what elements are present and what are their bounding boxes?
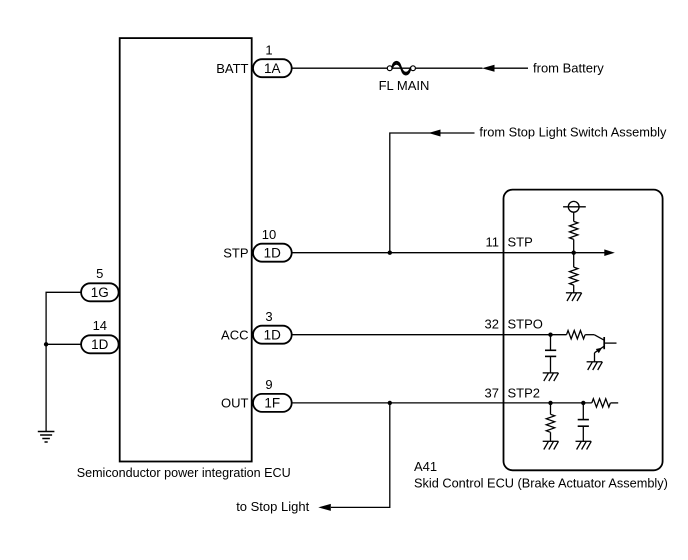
chassis ground (C2) xyxy=(576,441,592,449)
connector pin 1D (pin 14) xyxy=(81,335,119,353)
svg-text:BATT: BATT xyxy=(216,61,248,76)
svg-text:1: 1 xyxy=(265,42,272,57)
svg-text:STP2: STP2 xyxy=(508,386,541,401)
wire: from Stop Light Switch corner xyxy=(390,133,475,253)
svg-text:Skid Control ECU (Brake Actuat: Skid Control ECU (Brake Actuator Assembl… xyxy=(414,476,668,491)
svg-text:1D: 1D xyxy=(264,328,282,343)
svg-text:A41: A41 xyxy=(414,459,437,474)
connector pin 1A xyxy=(253,59,292,77)
arrowhead from Stop Light Switch Assembly xyxy=(429,130,441,137)
earth ground symbol xyxy=(38,432,55,443)
chassis ground (C1) xyxy=(543,373,559,381)
svg-text:STP: STP xyxy=(223,245,248,260)
chassis ground (STP divider) xyxy=(566,293,582,301)
junction: STP2 node 1 xyxy=(548,401,552,405)
wire: STP arrow xyxy=(574,252,605,254)
svg-text:1D: 1D xyxy=(264,246,282,261)
junction: STP divider xyxy=(572,251,576,255)
wire: circle to resistor R1 xyxy=(573,212,575,221)
wire: C1 to ground xyxy=(550,356,552,373)
svg-text:1A: 1A xyxy=(264,61,281,76)
transistor Q1 (PNP) xyxy=(594,335,616,362)
connector pin 1D (pin 3) xyxy=(253,326,292,344)
resistor R1 (pull-up) xyxy=(570,221,578,239)
junction: STP / stop light switch xyxy=(388,251,392,255)
junction: STP2 node 2 xyxy=(581,401,585,405)
svg-text:5: 5 xyxy=(96,266,103,281)
ECU box: Semiconductor power integration ECU xyxy=(120,38,252,461)
svg-text:3: 3 xyxy=(265,309,272,324)
junction on ground rail xyxy=(44,342,48,346)
svg-text:1F: 1F xyxy=(264,396,280,411)
wire: C2 to ground xyxy=(582,426,584,441)
wire: R1 to junction xyxy=(573,239,575,252)
power source symbol (circle) xyxy=(563,201,586,212)
fusible link FL MAIN xyxy=(387,61,415,75)
svg-text:OUT: OUT xyxy=(221,396,249,411)
wire: R2 to ground xyxy=(573,285,575,293)
connector pin 1D (pin 10) xyxy=(253,244,292,262)
svg-text:Semiconductor power integratio: Semiconductor power integration ECU xyxy=(77,465,291,480)
wire: ACC row xyxy=(292,334,567,336)
resistor R2 (pull-down) xyxy=(570,267,578,285)
wire: 1G to ground rail xyxy=(46,292,81,431)
arrowhead from Battery xyxy=(482,65,495,72)
wire: arrow to text xyxy=(495,67,529,69)
svg-text:FL MAIN: FL MAIN xyxy=(379,78,430,93)
junction: OUT to stop light xyxy=(388,401,392,405)
svg-text:STP: STP xyxy=(508,235,533,250)
arrowhead STP internal xyxy=(604,249,615,256)
svg-text:from Battery: from Battery xyxy=(533,60,604,75)
chassis ground (Q1 emitter) xyxy=(587,362,603,370)
resistor R3 (base resistor) xyxy=(567,331,586,339)
svg-text:9: 9 xyxy=(265,377,272,392)
wire: STP2 node1 to resistor R4 xyxy=(550,403,552,414)
connector pin 1G xyxy=(81,283,119,301)
capacitor C1 xyxy=(545,350,556,356)
junction: STPO node xyxy=(548,333,552,337)
wire: R4 to ground xyxy=(550,432,552,441)
svg-text:14: 14 xyxy=(93,318,107,333)
svg-text:10: 10 xyxy=(262,227,276,242)
wire: OUT row xyxy=(292,402,592,404)
svg-text:11: 11 xyxy=(486,235,500,250)
wire: to Stop Light drop xyxy=(331,403,390,508)
svg-text:from Stop Light Switch Assembl: from Stop Light Switch Assembly xyxy=(479,125,666,140)
wire: junction to resistor R2 xyxy=(573,253,575,267)
svg-text:37: 37 xyxy=(485,386,499,401)
resistor R4 xyxy=(546,414,554,432)
chassis ground (R4) xyxy=(543,441,559,449)
arrowhead to Stop Light xyxy=(318,504,331,511)
svg-text:1D: 1D xyxy=(91,337,109,352)
svg-text:STPO: STPO xyxy=(508,317,543,332)
capacitor C2 xyxy=(578,420,589,427)
wire: STPO node to capacitor C1 xyxy=(550,335,552,351)
svg-text:1G: 1G xyxy=(91,285,109,300)
wire: BATT to arrow xyxy=(292,67,483,69)
Skid Control ECU box A41 xyxy=(504,190,663,471)
wire: R3 to transistor base xyxy=(585,334,594,336)
connector pin 1F xyxy=(253,394,292,412)
svg-text:to Stop Light: to Stop Light xyxy=(236,499,309,514)
svg-text:ACC: ACC xyxy=(221,327,248,342)
svg-text:32: 32 xyxy=(485,317,499,332)
wire: R5 stub xyxy=(611,402,619,404)
resistor R5 (series) xyxy=(592,399,611,407)
wire: STP2 node2 to capacitor C2 xyxy=(582,403,584,420)
wire: STP row xyxy=(292,252,574,254)
wire: 1D(14) to ground rail xyxy=(46,343,81,345)
